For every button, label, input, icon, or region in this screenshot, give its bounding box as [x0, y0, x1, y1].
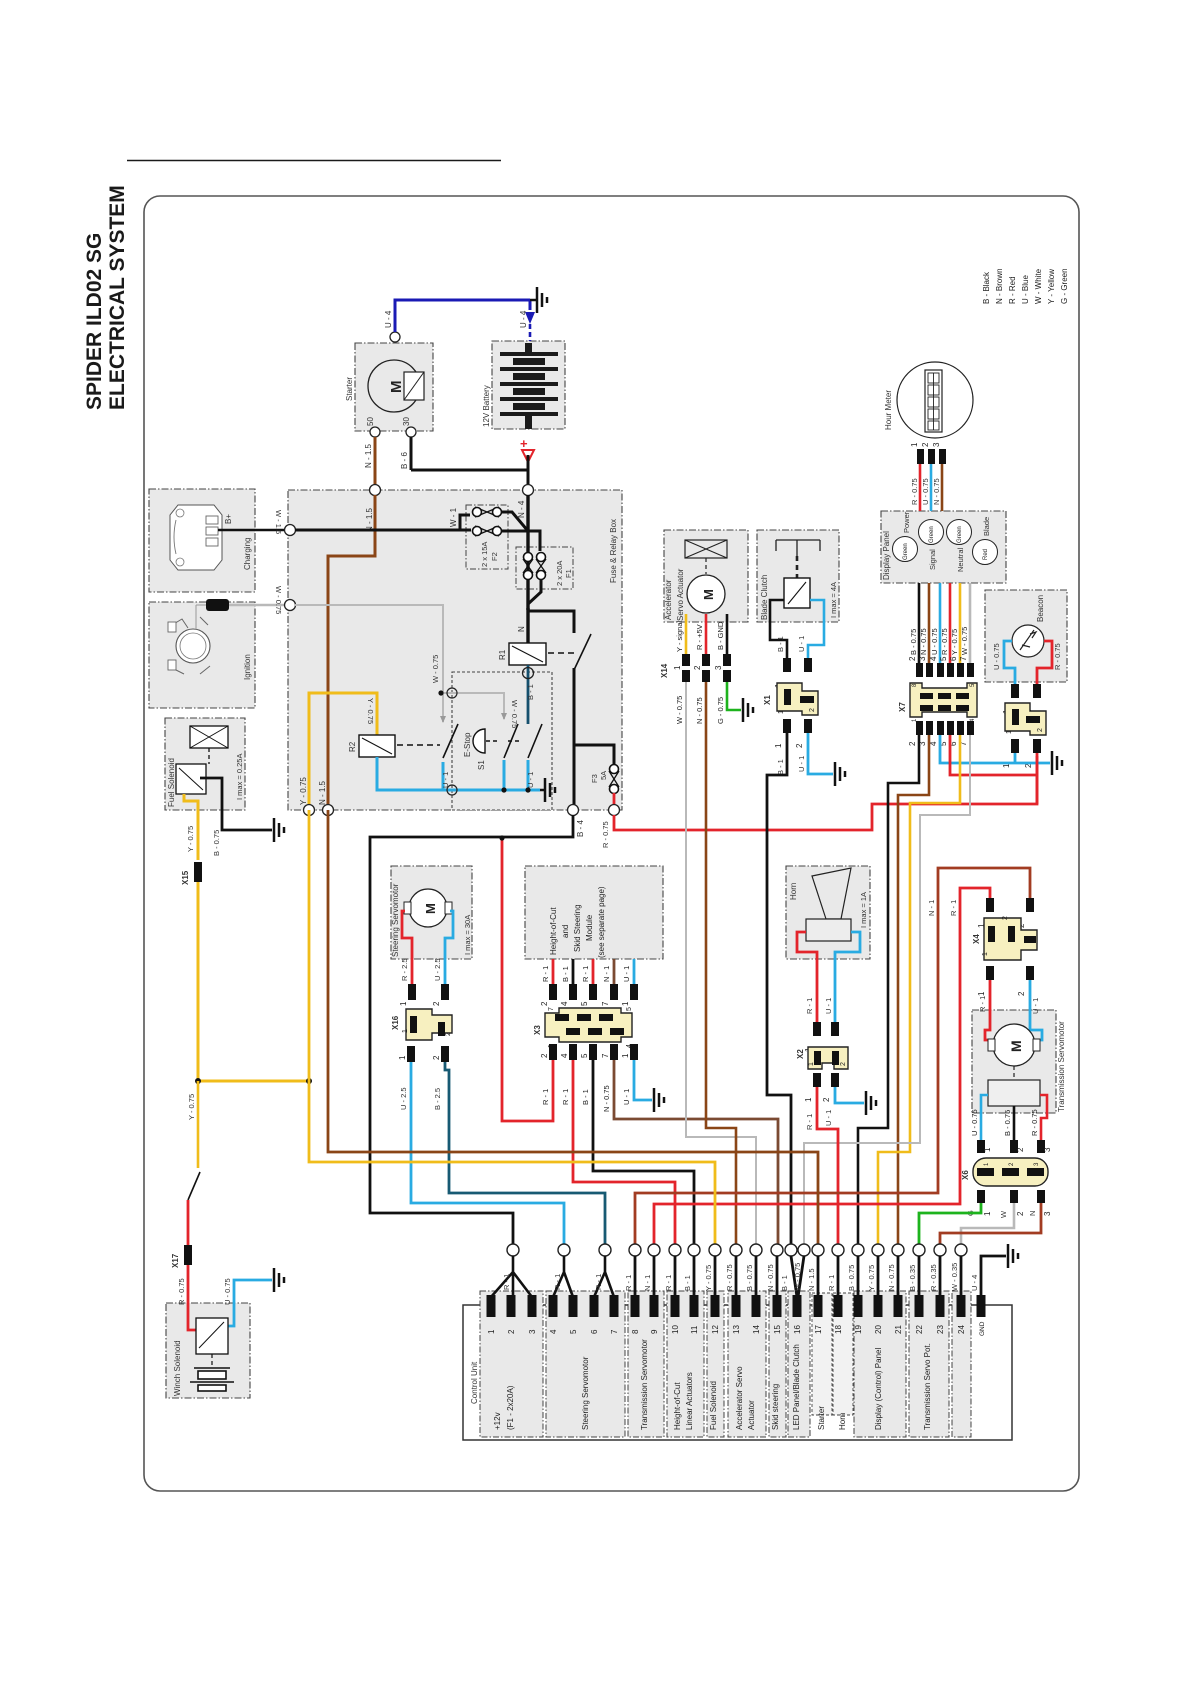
node on box border [285, 600, 296, 611]
charging alternator icon [170, 505, 252, 570]
svg-text:X16: X16 [391, 1015, 400, 1030]
connector X17 [184, 1245, 192, 1265]
svg-text:12: 12 [711, 1325, 720, 1334]
svg-text:2: 2 [1037, 728, 1044, 732]
wire N-0.75 brown X14-2 to CU pin13 [706, 682, 736, 1244]
svg-text:B - 1: B - 1 [776, 759, 785, 775]
connector X3 [533, 1007, 633, 1048]
svg-text:2: 2 [908, 656, 917, 661]
svg-text:W - 0.75: W - 0.75 [960, 627, 969, 655]
E-stop switch blades [504, 724, 518, 758]
svg-text:1: 1 [983, 1211, 992, 1216]
svg-text:ELECTRICAL SYSTEM: ELECTRICAL SYSTEM [106, 185, 129, 410]
connector X6 [961, 1158, 1048, 1186]
svg-text:+12v: +12v [493, 1412, 502, 1430]
svg-text:23: 23 [936, 1325, 945, 1334]
svg-text:16: 16 [793, 1325, 802, 1334]
fuse F1a 20A [523, 553, 533, 580]
svg-text:F1: F1 [564, 569, 573, 578]
svg-text:Steering Servomotor: Steering Servomotor [581, 1356, 590, 1430]
X7 bottom pins [916, 721, 974, 735]
svg-text:R - 1: R - 1 [949, 900, 958, 916]
svg-text:N: N [1028, 1211, 1037, 1216]
beacon [992, 595, 1062, 670]
wire N into R1 [526, 608, 529, 643]
fork pins 1-3 [507, 1244, 519, 1256]
svg-text:1: 1 [977, 991, 986, 996]
svg-text:R - 1: R - 1 [805, 998, 814, 1014]
svg-text:1: 1 [808, 1062, 815, 1066]
svg-text:15: 15 [773, 1325, 782, 1334]
ignition switch black element [206, 599, 229, 611]
svg-text:1: 1 [1006, 730, 1013, 734]
connector X14 pins [682, 654, 731, 682]
svg-text:Height-of-Cut: Height-of-Cut [549, 907, 558, 955]
wire G-0.75 green to ground [727, 682, 741, 710]
svg-text:4: 4 [549, 1329, 558, 1334]
winch piston icon [190, 1368, 234, 1391]
connector X7 [898, 683, 977, 722]
svg-text:Skid Steering: Skid Steering [573, 904, 582, 952]
wire B-2.5 navy X16 to CU pins 6-7 [445, 1062, 605, 1244]
ground (battery minus) [530, 287, 547, 313]
wire ignition W-0.75 gray [229, 604, 284, 607]
svg-text:B - 1: B - 1 [561, 966, 570, 982]
svg-text:N - 0.75: N - 0.75 [602, 1085, 611, 1112]
svg-text:B - GND: B - GND [716, 621, 725, 650]
svg-text:+: + [520, 436, 528, 451]
wire X3-5 black to CU pin11 [593, 1060, 694, 1244]
CU pin 18 node [832, 1244, 844, 1256]
svg-text:B - 1: B - 1 [581, 1089, 590, 1105]
svg-text:Starter: Starter [345, 377, 354, 401]
svg-text:B - 4: B - 4 [576, 820, 585, 837]
starter/horn inner boxes [812, 1293, 832, 1415]
svg-text:F3: F3 [590, 774, 599, 783]
R1 switch branch [528, 611, 574, 745]
svg-text:Fuse & Relay Box: Fuse & Relay Box [609, 519, 618, 583]
svg-text:11: 11 [690, 1325, 699, 1334]
svg-text:G - 0.75: G - 0.75 [716, 697, 725, 724]
svg-text:U - 1: U - 1 [824, 1110, 833, 1126]
wire N-1.5 brown starter 50 [374, 437, 377, 485]
wire F1 join [528, 580, 541, 604]
svg-text:18: 18 [834, 1325, 843, 1334]
beacon wires to connector [1004, 641, 1015, 684]
wire B-1 navy below R1 [527, 665, 530, 700]
svg-text:Signal: Signal [928, 549, 937, 570]
svg-text:1: 1 [910, 442, 919, 447]
12V battery B1 [500, 343, 558, 429]
X7 top pins [916, 663, 974, 677]
svg-text:Green: Green [903, 543, 909, 560]
svg-text:Horn: Horn [838, 1413, 847, 1430]
svg-text:5: 5 [939, 656, 948, 661]
wire R-0.75 X17 to winch [188, 1265, 196, 1330]
svg-text:Hour Meter: Hour Meter [884, 390, 893, 430]
display panel box [881, 511, 1006, 583]
svg-text:E-Stop: E-Stop [463, 732, 472, 757]
svg-text:2: 2 [840, 1062, 847, 1066]
beacon connector pins [1011, 684, 1019, 698]
svg-text:N - 0.75: N - 0.75 [766, 1264, 775, 1291]
svg-text:U - 0.75: U - 0.75 [970, 1109, 979, 1136]
height-of-cut module label [549, 886, 606, 958]
svg-text:2: 2 [809, 708, 816, 712]
X2 top pins [813, 1022, 821, 1036]
X3 bottom pins [549, 1044, 638, 1060]
svg-text:14: 14 [752, 1325, 761, 1334]
svg-text:3: 3 [714, 665, 723, 670]
svg-text:X4: X4 [972, 934, 981, 944]
wire W-1 black from node to F2 [295, 515, 471, 530]
CU pin contacts 1-24 [487, 1295, 986, 1317]
svg-text:B - 2.5: B - 2.5 [433, 1088, 442, 1110]
display to X7 wires [918, 583, 921, 663]
svg-text:R - 0.75: R - 0.75 [1030, 1109, 1039, 1136]
svg-text:X6: X6 [961, 1170, 970, 1180]
colour legend [982, 268, 1069, 304]
svg-text:R - 0.75: R - 0.75 [601, 821, 610, 848]
wire X3-1 blue to ground [634, 1060, 652, 1100]
charging box [149, 489, 255, 592]
svg-text:22: 22 [915, 1325, 924, 1334]
svg-text:1: 1 [804, 1097, 813, 1102]
wire to F3 [574, 745, 614, 764]
svg-text:Servo Actuator: Servo Actuator [676, 568, 685, 621]
svg-text:R - 1: R - 1 [561, 1089, 570, 1105]
svg-text:Y - Yellow: Y - Yellow [1047, 269, 1056, 304]
svg-text:N - 4: N - 4 [517, 500, 526, 518]
svg-text:R - 1: R - 1 [502, 1274, 511, 1290]
wire X7-2 black to CU pin19 [858, 735, 919, 1244]
svg-text:W - 1: W - 1 [449, 507, 458, 527]
svg-text:3: 3 [932, 442, 941, 447]
svg-text:Accelerator Servo: Accelerator Servo [735, 1366, 744, 1430]
wire B-6 black battery/starter [411, 437, 528, 485]
svg-text:B - 1: B - 1 [526, 684, 535, 700]
svg-text:7: 7 [601, 1001, 610, 1006]
svg-text:Y - 0.75: Y - 0.75 [187, 1094, 196, 1120]
wire X6-2 gray to CU pin24 [961, 1203, 1014, 1244]
svg-text:B - 0.75: B - 0.75 [847, 1265, 856, 1291]
X3 top pins [549, 984, 638, 1000]
wire X7-5 red to beacon red feed [950, 735, 1037, 775]
starter U1 [345, 332, 424, 437]
wire X1-2 blue to ground [808, 733, 833, 774]
svg-text:20: 20 [874, 1325, 883, 1334]
svg-text:7: 7 [610, 1329, 619, 1334]
svg-text:2: 2 [693, 665, 702, 670]
wire X6-1 green to CU pin22 [919, 1203, 981, 1244]
svg-text:Steering Servomotor: Steering Servomotor [391, 883, 400, 957]
wire X3-7 brown to CU pin15 [614, 1060, 778, 1244]
svg-text:6: 6 [590, 1329, 599, 1334]
svg-text:X2: X2 [796, 1049, 805, 1059]
svg-text:1: 1 [621, 1053, 630, 1058]
height-of-cut module box [525, 866, 663, 959]
X16 lower pins [407, 1046, 415, 1062]
svg-text:U - 1: U - 1 [824, 998, 833, 1014]
fuel solenoid box [165, 718, 245, 810]
GND pin [981, 1256, 1006, 1295]
wires U-1 blue estop to bus [503, 760, 506, 790]
wire X2-2 blue to ground [835, 1087, 864, 1103]
svg-text:2: 2 [795, 743, 804, 748]
svg-text:B - 0.75: B - 0.75 [909, 629, 918, 655]
relay R1 [509, 643, 546, 665]
top rule line [127, 160, 501, 162]
svg-text:I max = 0.25A: I max = 0.25A [235, 754, 244, 800]
svg-text:21: 21 [894, 1325, 903, 1334]
outer border frame [144, 196, 1079, 1491]
horn icon [789, 868, 868, 941]
svg-text:U - 1: U - 1 [797, 756, 806, 772]
node on box border [285, 525, 296, 536]
ignition key icon [168, 617, 252, 680]
svg-text:1: 1 [399, 1001, 408, 1006]
wire X7-4 blue + beacon blue to ground [940, 735, 1050, 763]
wire R-0.75 to X17 [187, 1200, 190, 1245]
connector X16 [391, 1009, 452, 1040]
E-stop box (dashed) [452, 672, 552, 810]
svg-text:Ignition: Ignition [243, 654, 252, 680]
svg-text:R - 2.5: R - 2.5 [400, 958, 409, 981]
CU pin 21 node [892, 1244, 904, 1256]
svg-text:R - 0.75: R - 0.75 [940, 628, 949, 655]
CU pin 11 node [688, 1244, 700, 1256]
svg-text:Beacon: Beacon [1036, 595, 1045, 622]
svg-text:R2: R2 [348, 741, 357, 752]
connector X1 [763, 683, 818, 715]
wire X3-4 red to CU pin10 [573, 1060, 675, 1244]
X4 feed wires N-1 R-1 [635, 868, 1030, 1244]
fuse F3 5A [609, 765, 619, 794]
svg-text:N: N [517, 626, 526, 632]
fuel solenoid contact [176, 764, 206, 794]
winch solenoid relay [196, 1318, 228, 1354]
svg-text:9: 9 [650, 1329, 659, 1334]
svg-text:W - White: W - White [1034, 268, 1043, 304]
svg-text:B - 0.75: B - 0.75 [745, 1265, 754, 1291]
svg-text:M: M [388, 381, 405, 394]
svg-text:1: 1 [982, 952, 989, 956]
svg-text:(F1 - 2x20A): (F1 - 2x20A) [506, 1385, 515, 1430]
svg-text:U - 1: U - 1 [622, 966, 631, 982]
fuse F1b 20A [536, 553, 546, 580]
wire W-0.75 gray to R2 switch [295, 605, 504, 722]
svg-text:4: 4 [929, 656, 938, 661]
HOC wires to X3 top: R-1 B-1 R-1 N-1 U-1 [552, 959, 555, 984]
svg-text:2: 2 [540, 1001, 549, 1006]
fuse F2a 15A [473, 507, 502, 517]
svg-text:50: 50 [366, 417, 375, 426]
svg-text:X14: X14 [660, 663, 669, 678]
svg-text:4: 4 [560, 1001, 569, 1006]
wire U-4 blue starter to ground [394, 300, 531, 332]
svg-text:U - 0.75: U - 0.75 [921, 478, 930, 505]
svg-text:17: 17 [814, 1325, 823, 1334]
fuse F2b 15A [473, 526, 502, 536]
X4 top pins [986, 898, 994, 912]
control unit outer box [463, 1305, 1012, 1440]
svg-text:X3: X3 [533, 1025, 542, 1035]
F2 fuse sub-box [466, 505, 508, 569]
wires F2 to main vertical N-4 [502, 512, 540, 551]
CU section labels [493, 1339, 932, 1430]
svg-text:2: 2 [908, 741, 917, 746]
svg-text:Red: Red [983, 549, 989, 560]
wire B-0.75 fuel solenoid to ground [200, 778, 272, 830]
svg-text:R - 1: R - 1 [624, 1275, 633, 1291]
svg-text:Display (Control) Panel: Display (Control) Panel [874, 1348, 883, 1430]
svg-text:X1: X1 [763, 695, 772, 705]
svg-text:N - 1.5: N - 1.5 [807, 1268, 816, 1291]
svg-text:X7: X7 [898, 702, 907, 712]
svg-text:U - 4: U - 4 [970, 1275, 979, 1291]
F1 fuse sub-box [516, 547, 573, 589]
svg-text:Horn: Horn [789, 883, 798, 900]
blade clutch icon [776, 540, 820, 556]
svg-text:1: 1 [487, 1329, 496, 1334]
svg-text:1: 1 [402, 1029, 409, 1033]
CU pin 17 node [812, 1244, 824, 1256]
accelerator wires to X14 [685, 614, 688, 654]
svg-text:1: 1 [774, 743, 783, 748]
svg-text:4: 4 [929, 741, 938, 746]
svg-text:U - Blue: U - Blue [1021, 275, 1030, 304]
svg-text:Green: Green [929, 526, 935, 543]
svg-text:Winch Solenoid: Winch Solenoid [173, 1340, 182, 1396]
svg-text:N - 1: N - 1 [602, 966, 611, 982]
svg-text:R - 0.75: R - 0.75 [177, 1278, 186, 1305]
transmission servomotor box [972, 1010, 1056, 1113]
wire W-0.75 gray X14-1 to CU pin14 [686, 682, 756, 1244]
svg-text:2: 2 [1016, 1147, 1025, 1152]
svg-text:B+: B+ [224, 514, 233, 524]
fork pins 6-7 [599, 1244, 611, 1256]
svg-text:X15: X15 [181, 870, 190, 885]
X6 top pins [977, 1140, 985, 1153]
svg-text:R - 0.75: R - 0.75 [1053, 643, 1062, 670]
beacon connector bottom pins [1011, 739, 1019, 753]
ignition box [149, 602, 255, 708]
svg-text:2: 2 [432, 1001, 441, 1006]
wire Y-0.75 X15 down [197, 882, 200, 1081]
svg-text:U - 4: U - 4 [384, 310, 393, 328]
component gray boxes [149, 341, 1067, 1398]
svg-text:8: 8 [631, 1329, 640, 1334]
CU pin 22 node [913, 1244, 925, 1256]
svg-text:5: 5 [580, 1001, 589, 1006]
wire R-0.75 red below F3 [613, 793, 616, 805]
ground fuel solenoid [274, 818, 284, 842]
svg-text:W - 0.75: W - 0.75 [793, 1263, 802, 1291]
wire X6-3 brown to CU pin23 [940, 1203, 1041, 1244]
svg-text:I max = 30A: I max = 30A [463, 915, 472, 955]
CU pin 16b node [798, 1244, 810, 1256]
CU pin 24 node [955, 1244, 967, 1256]
X6 bottom pins [977, 1190, 985, 1203]
R2 link dashes [397, 744, 440, 746]
svg-text:U - 0.75: U - 0.75 [223, 1278, 232, 1305]
svg-text:5A: 5A [599, 771, 608, 780]
svg-text:Control Unit: Control Unit [470, 1361, 479, 1404]
svg-text:Transmission Servomotor: Transmission Servomotor [640, 1339, 649, 1430]
beacon connector [1005, 703, 1046, 735]
connector X15 [194, 862, 202, 882]
wire U-0.75 winch to ground [228, 1280, 272, 1326]
svg-text:N - 0.75: N - 0.75 [919, 628, 928, 655]
X1 top pins [783, 658, 791, 672]
beacon box [985, 590, 1067, 682]
svg-text:10: 10 [671, 1325, 680, 1334]
blade clutch box [757, 530, 839, 622]
svg-text:I max = 1A: I max = 1A [859, 892, 868, 928]
control unit section boxes [480, 1291, 971, 1437]
X17 switch blade [188, 1172, 200, 1200]
svg-text:Y - 0.75: Y - 0.75 [950, 629, 959, 655]
12V battery box [492, 341, 565, 429]
CU pin 15 node [771, 1244, 783, 1256]
svg-text:R - 1: R - 1 [594, 1274, 603, 1290]
ground estop bus [540, 778, 555, 802]
svg-text:1: 1 [673, 665, 682, 670]
svg-text:(see separate page): (see separate page) [597, 886, 606, 958]
accelerator servo actuator [664, 540, 727, 621]
svg-text:N - 1.5: N - 1.5 [364, 443, 373, 468]
wire U-2.5 lightblue X16 to CU pins 4-5 [411, 1062, 564, 1244]
svg-text:R - 1: R - 1 [581, 966, 590, 982]
svg-text:R - +5V: R - +5V [695, 624, 704, 650]
display panel [882, 511, 998, 580]
svg-text:B - 6: B - 6 [400, 452, 409, 469]
horn box [786, 866, 870, 959]
svg-text:Fuel Solenoid: Fuel Solenoid [709, 1381, 718, 1430]
CU pin 13 node [730, 1244, 742, 1256]
svg-text:N - 1.5: N - 1.5 [318, 780, 327, 805]
wire X7-6 yellow to CU pin20 [878, 735, 960, 1244]
svg-text:6: 6 [949, 656, 958, 661]
svg-text:B - 1: B - 1 [776, 636, 785, 652]
svg-text:N - 0.75: N - 0.75 [932, 478, 941, 505]
svg-text:W - 0.75: W - 0.75 [431, 655, 440, 683]
svg-text:G - Green: G - Green [1060, 268, 1069, 304]
svg-text:R - 1: R - 1 [978, 996, 987, 1012]
winch solenoid box [166, 1303, 250, 1398]
svg-text:N - 1.5: N - 1.5 [365, 507, 374, 532]
svg-text:U - 1: U - 1 [526, 772, 535, 788]
svg-text:Y - 0.75: Y - 0.75 [704, 1265, 713, 1291]
R1 switch blade [574, 634, 591, 670]
svg-text:2: 2 [540, 1053, 549, 1058]
bottom border nodes [304, 805, 315, 816]
wire B-4 black to CU pins 1-3 [370, 815, 573, 1244]
svg-text:Blade Clutch: Blade Clutch [760, 575, 769, 620]
svg-text:LED Panel/Blade Clutch: LED Panel/Blade Clutch [792, 1344, 801, 1430]
steering servomotor box [391, 866, 472, 959]
svg-text:R - Red: R - Red [1008, 276, 1017, 304]
svg-text:U - 1: U - 1 [1031, 998, 1040, 1014]
svg-text:Transmission Servo Pot.: Transmission Servo Pot. [923, 1343, 932, 1430]
svg-text:2: 2 [445, 1032, 452, 1036]
svg-text:R - 1: R - 1 [541, 966, 550, 982]
blade clutch wires to X1 [770, 600, 787, 658]
svg-text:Charging: Charging [243, 538, 252, 570]
svg-text:U - 4: U - 4 [519, 310, 528, 328]
wire X1-1 black to CU pin16 [767, 733, 791, 1244]
svg-text:R - 1: R - 1 [805, 1114, 814, 1130]
